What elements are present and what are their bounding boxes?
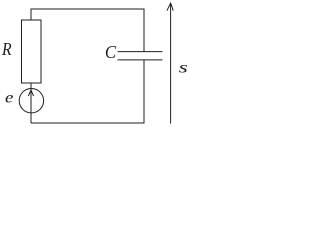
wire: top rail with left and right drops	[31, 9, 144, 52]
resistor R1 body	[22, 20, 42, 83]
wire: capacitor bottom to bottom rail	[143, 60, 145, 123]
source E1 arrowhead	[28, 90, 33, 96]
capacitor C1 top plate	[118, 51, 163, 53]
svg-text:s: s	[179, 59, 188, 76]
node s: output indicator line	[170, 4, 172, 124]
capacitor C1 bottom plate	[118, 59, 163, 61]
node s: arrowhead	[167, 3, 173, 11]
svg-text:e: e	[5, 90, 13, 107]
wire: resistor bottom through source to bottom rail	[30, 83, 32, 123]
wire: bottom rail	[31, 122, 145, 124]
source E1 circle	[19, 89, 43, 113]
svg-text:R: R	[1, 39, 11, 59]
svg-text:C: C	[105, 42, 116, 62]
